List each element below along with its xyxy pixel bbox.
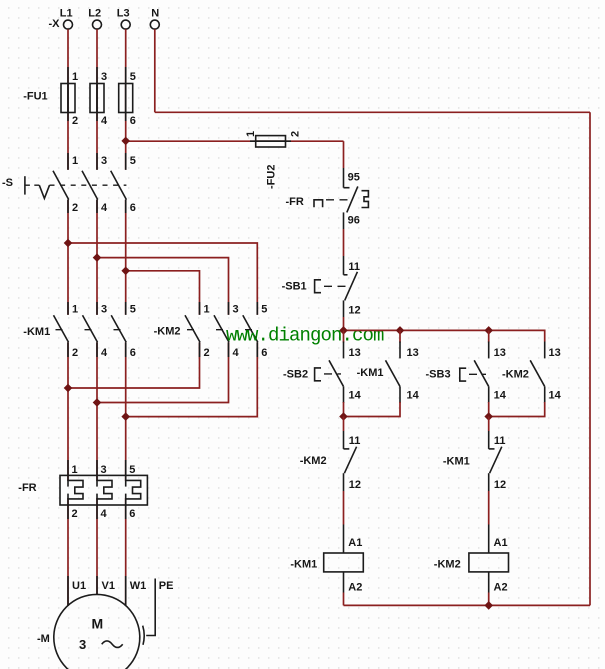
svg-text:-FR: -FR: [18, 482, 36, 494]
wire KM2 pole3 bottom to W phase: [126, 342, 258, 416]
junction dot V lower: [93, 398, 102, 407]
wire control bus horizontal: [344, 330, 545, 341]
SB1 actuator: [315, 280, 321, 293]
SB3 linkage dashes: [469, 373, 486, 375]
thermal relay FR element 2: [96, 460, 98, 487]
switch S linkage dashes left: [25, 184, 39, 186]
svg-text:96: 96: [348, 214, 360, 226]
wire L2 phase column upper: [96, 29, 98, 170]
svg-text:www.diangon.com: www.diangon.com: [226, 325, 384, 347]
pushbutton SB1 stop: [343, 256, 345, 275]
wire bus to KM1 aux: [399, 330, 401, 342]
thermal relay FR element 1: [67, 460, 69, 487]
svg-text:6: 6: [130, 347, 136, 359]
contactor KM2 aux contact 13-14: [544, 342, 546, 359]
svg-text:-KM1: -KM1: [23, 326, 50, 338]
svg-text:-SB3: -SB3: [426, 369, 451, 381]
motor circle: [54, 594, 140, 669]
svg-text:11: 11: [348, 261, 360, 273]
terminal circle N: [150, 20, 159, 29]
svg-text:3: 3: [79, 637, 86, 652]
svg-text:95: 95: [348, 172, 360, 184]
svg-text:1: 1: [72, 464, 78, 476]
switch S linkage dashes: [50, 184, 127, 186]
contactor KM1 main pole 2: [96, 302, 98, 315]
svg-text:1: 1: [245, 131, 257, 137]
svg-text:L1: L1: [60, 8, 73, 20]
svg-text:1: 1: [72, 304, 78, 316]
switch S pole 3: [125, 153, 127, 170]
svg-text:A2: A2: [348, 582, 362, 594]
wire L1 phase column upper: [67, 29, 69, 170]
wire KM1 aux to node: [344, 402, 401, 417]
svg-text:1: 1: [72, 71, 78, 83]
contactor KM2 main pole 1: [199, 302, 201, 315]
SB1 linkage dashes: [324, 285, 351, 287]
svg-text:-KM2: -KM2: [502, 369, 529, 381]
svg-text:U1: U1: [72, 580, 86, 592]
thermal relay FR element 3: [125, 460, 127, 487]
svg-text:-X: -X: [49, 18, 61, 30]
svg-text:14: 14: [549, 390, 562, 402]
wire bottom rail to N: [344, 604, 591, 606]
wire N column: [154, 29, 156, 112]
wire KM2 pole1 bottom to U phase: [68, 342, 200, 388]
switch S pole 1: [67, 153, 69, 170]
wire SB1 to bus: [343, 317, 345, 330]
svg-text:2: 2: [72, 115, 78, 127]
motor terminal W1: [125, 576, 127, 606]
KM2 linkage dashes: [187, 329, 257, 331]
terminal circle L2: [93, 20, 102, 29]
wire N horizontal to right rail: [155, 111, 590, 113]
svg-text:5: 5: [130, 71, 136, 83]
wire L2 column lower: [96, 342, 98, 481]
svg-text:-KM1: -KM1: [290, 559, 317, 571]
FR contact linkage dashes: [326, 199, 353, 201]
junction dot bus KM1 aux: [396, 326, 405, 335]
motor tilde: [102, 641, 123, 648]
junction dot U lower: [64, 384, 73, 393]
switch S handle bar: [24, 176, 26, 194]
svg-text:L3: L3: [117, 8, 130, 20]
junction dot bottom rail: [484, 601, 493, 610]
junction dot SB2 KM1aux: [339, 412, 348, 421]
svg-text:6: 6: [261, 347, 267, 359]
svg-text:-KM1: -KM1: [357, 367, 384, 379]
svg-text:13: 13: [494, 347, 506, 359]
svg-text:6: 6: [130, 115, 136, 127]
svg-text:5: 5: [130, 304, 136, 316]
wire PE: [146, 579, 155, 636]
wire L1 column mid: [67, 200, 69, 315]
junction dot W lower: [121, 412, 130, 421]
contactor KM2 main pole 3: [256, 302, 258, 315]
fuse FU1 pole 2: [96, 67, 98, 121]
svg-text:-KM2: -KM2: [154, 326, 181, 338]
svg-text:2: 2: [290, 131, 302, 137]
svg-text:L2: L2: [88, 8, 101, 20]
svg-text:13: 13: [549, 347, 561, 359]
wire L3 to KM2 pole1 crossover: [126, 271, 200, 315]
wire L3 column mid: [125, 200, 127, 315]
junction dot SB3 KM2aux: [484, 412, 493, 421]
svg-text:1: 1: [72, 155, 78, 167]
wire KM2 pole2 bottom to V phase: [97, 342, 229, 402]
svg-text:6: 6: [130, 202, 136, 214]
svg-text:-KM1: -KM1: [443, 456, 470, 468]
svg-text:2: 2: [72, 508, 78, 520]
svg-text:1: 1: [204, 304, 210, 316]
fuse FU1 pole 1: [67, 67, 69, 121]
terminal circle L1: [64, 20, 73, 29]
svg-text:-S: -S: [2, 177, 13, 189]
SB2 actuator: [315, 368, 321, 381]
svg-text:4: 4: [101, 115, 108, 127]
KM1 linkage dashes: [56, 329, 126, 331]
wire SB3 to node: [488, 402, 490, 417]
wire bus to SB2: [343, 330, 345, 342]
pushbutton SB2 start forward: [343, 342, 345, 359]
FR test symbol: [314, 200, 323, 208]
fuse FU1 pole 3: [125, 67, 127, 121]
svg-text:-KM2: -KM2: [300, 455, 327, 467]
contactor KM2 main pole 2: [228, 302, 230, 315]
svg-text:11: 11: [494, 435, 506, 447]
svg-text:2: 2: [72, 202, 78, 214]
svg-text:W1: W1: [130, 580, 147, 592]
coil KM1: [343, 525, 345, 554]
wire control feed from L3 through FU2: [126, 140, 344, 142]
wire L1 to KM2 pole3 crossover: [68, 243, 257, 315]
svg-text:12: 12: [494, 479, 506, 491]
wire L3 column lower: [125, 342, 127, 481]
svg-text:3: 3: [101, 304, 107, 316]
svg-text:PE: PE: [159, 580, 174, 592]
svg-text:3: 3: [101, 71, 107, 83]
svg-text:14: 14: [349, 390, 362, 402]
coil KM2: [488, 525, 490, 554]
junction dot L2 upper: [93, 253, 102, 262]
motor PE clamp arc: [143, 626, 145, 645]
svg-text:4: 4: [233, 347, 240, 359]
svg-text:6: 6: [129, 508, 135, 520]
junction dot bus SB3: [484, 326, 493, 335]
wire L1 column lower: [67, 342, 69, 481]
svg-text:13: 13: [349, 347, 361, 359]
junction dot bus SB2: [339, 326, 348, 335]
switch S pole 2: [96, 153, 98, 170]
junction dot L1 upper: [64, 239, 73, 248]
thermal relay FR box: [60, 475, 147, 505]
svg-text:5: 5: [261, 304, 267, 316]
SB3 actuator: [460, 368, 466, 381]
svg-text:4: 4: [101, 202, 108, 214]
svg-text:5: 5: [129, 464, 135, 476]
motor terminal U1: [67, 576, 69, 606]
svg-text:-FU2: -FU2: [266, 165, 278, 189]
svg-text:13: 13: [407, 347, 419, 359]
junction dot L3 upper: [121, 267, 130, 276]
motor terminal V1: [96, 576, 98, 595]
wire L3 phase column upper: [125, 29, 127, 170]
svg-text:-SB2: -SB2: [283, 369, 308, 381]
svg-text:12: 12: [349, 479, 361, 491]
svg-text:-M: -M: [37, 633, 50, 645]
terminal circle L3: [121, 20, 130, 29]
svg-text:4: 4: [101, 508, 108, 520]
wire bus to SB3: [488, 330, 490, 342]
contactor KM1 aux contact 13-14: [399, 342, 401, 359]
svg-text:-FU1: -FU1: [23, 91, 47, 103]
svg-text:14: 14: [494, 390, 507, 402]
wire L2 column mid: [96, 200, 98, 315]
wire control vertical to FR contact: [343, 141, 345, 168]
contactor KM1 interlock contact 11-12: [488, 417, 490, 432]
svg-text:5: 5: [130, 155, 136, 167]
svg-text:-KM2: -KM2: [434, 559, 461, 571]
svg-text:A2: A2: [494, 582, 508, 594]
svg-text:A1: A1: [494, 537, 508, 549]
wire KM2 aux to node: [489, 402, 545, 417]
svg-text:V1: V1: [102, 580, 115, 592]
contactor KM2 interlock contact 11-12: [343, 417, 345, 432]
svg-text:A1: A1: [348, 537, 362, 549]
wire SB2 to node: [343, 402, 345, 417]
svg-text:2: 2: [204, 347, 210, 359]
SB2 linkage dashes: [324, 373, 341, 375]
thermal contact FR 95-96: [343, 168, 345, 188]
contactor KM1 main pole 1: [67, 302, 69, 315]
pushbutton SB3 start reverse: [488, 342, 490, 359]
switch S operator V: [39, 185, 49, 198]
wire L2 to KM2 pole2 crossover: [97, 258, 229, 315]
svg-text:12: 12: [348, 305, 360, 317]
FR trip release symbol: [362, 191, 369, 208]
svg-text:-FR: -FR: [286, 196, 304, 208]
svg-text:3: 3: [101, 464, 107, 476]
svg-text:2: 2: [72, 347, 78, 359]
junction dot FU2 tap: [121, 137, 130, 146]
wire right rail N: [589, 112, 591, 605]
svg-text:3: 3: [101, 155, 107, 167]
contactor KM1 main pole 3: [125, 302, 127, 315]
fuse FU2: [250, 140, 291, 142]
svg-text:-SB1: -SB1: [282, 281, 307, 293]
svg-text:4: 4: [101, 347, 108, 359]
svg-text:N: N: [151, 8, 159, 20]
svg-text:11: 11: [349, 435, 361, 447]
wire FR to SB1: [343, 229, 345, 256]
svg-text:3: 3: [233, 304, 239, 316]
svg-text:14: 14: [407, 390, 420, 402]
svg-text:M: M: [92, 616, 104, 632]
